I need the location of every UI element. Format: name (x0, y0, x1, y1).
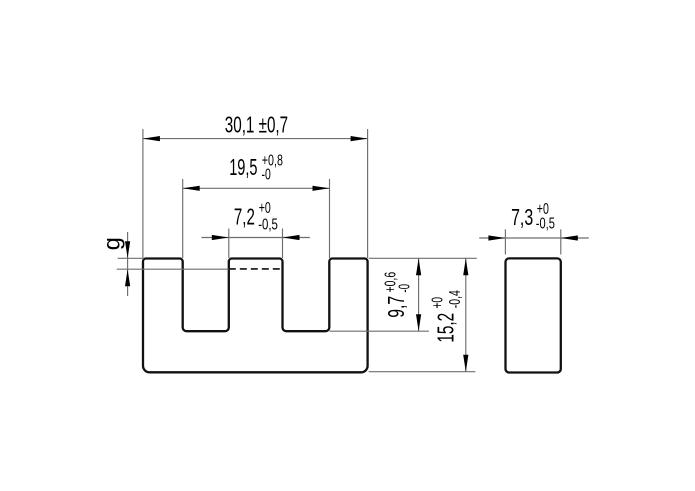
svg-text:9,7: 9,7 (383, 296, 409, 318)
svg-text:19,5: 19,5 (229, 154, 257, 180)
svg-text:-0,4: -0,4 (447, 290, 464, 308)
svg-text:-0: -0 (397, 284, 414, 293)
svg-text:-0,5: -0,5 (536, 216, 555, 233)
svg-text:+0: +0 (259, 200, 271, 217)
svg-text:-0: -0 (262, 166, 271, 183)
svg-text:30,1 ±0,7: 30,1 ±0,7 (225, 111, 288, 137)
svg-text:g: g (99, 237, 125, 250)
svg-text:7,2: 7,2 (234, 203, 255, 229)
svg-text:-0,5: -0,5 (258, 217, 278, 234)
svg-text:7,3: 7,3 (511, 204, 533, 230)
svg-text:15,2: 15,2 (433, 313, 459, 343)
svg-text:+0: +0 (430, 297, 447, 309)
